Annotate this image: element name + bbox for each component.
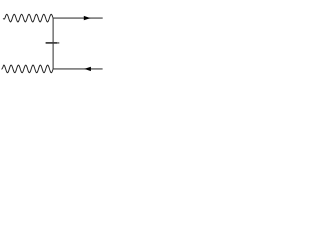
arrowhead on top line (pointing right) [84,16,91,20]
photon wavy line (top incoming) [3,14,53,22]
fermion line vertical segment [52,18,54,69]
photon wavy line (bottom incoming) [2,65,53,73]
mass-insertion tick on vertical line [46,42,58,44]
wire: bottom horizontal fermion line [53,68,103,70]
mass-insertion tick fading right end [57,42,59,44]
arrowhead on bottom line (pointing left) [84,67,91,71]
wire: top horizontal fermion line [53,17,103,19]
